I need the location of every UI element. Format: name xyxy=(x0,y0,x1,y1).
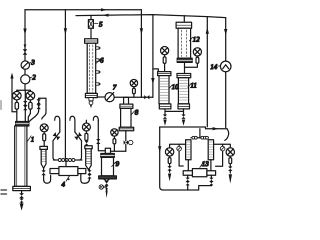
wire: electrolyzer section top line xyxy=(160,127,227,129)
swan neck 2 xyxy=(70,116,75,132)
swan neck 3 xyxy=(93,116,98,120)
svg-text:9: 9 xyxy=(116,160,120,168)
column 6 xyxy=(87,43,96,93)
wire: swan1 drop with valve xyxy=(53,132,61,160)
wire: manifold tee xyxy=(17,89,31,91)
svg-text:3: 3 xyxy=(30,59,35,67)
column 6 drain xyxy=(89,98,93,109)
rotameter pot C xyxy=(43,132,46,147)
column 1 bottom flange xyxy=(13,186,31,190)
wire: branch B drop xyxy=(28,100,30,122)
column 10 bottom flange xyxy=(159,104,171,109)
rotameter pot A xyxy=(15,102,18,109)
wire: main center line x=65.4 xyxy=(64,10,66,160)
heater 4 right nozzle xyxy=(78,169,86,174)
condenser 8 drain valve with handle xyxy=(124,131,133,152)
pump 2 xyxy=(21,75,30,84)
valve A (handwheel) xyxy=(12,90,21,100)
label 13 xyxy=(200,160,210,168)
column 1 top flange xyxy=(16,122,29,127)
label 6 xyxy=(96,57,104,65)
absorber 9 body xyxy=(102,157,114,176)
heater 4 left nozzle xyxy=(50,169,59,174)
wire: stub header to heater xyxy=(65,160,67,167)
feeder box 5 xyxy=(88,15,93,38)
wire: bridge between column bottoms xyxy=(165,109,184,112)
column 10 top flange xyxy=(158,72,171,76)
absorber 9 bottom flange xyxy=(99,176,117,179)
wire: cell left drain xyxy=(186,175,190,190)
label 9 xyxy=(112,160,120,168)
wire: branch to column 10 flange xyxy=(153,69,158,72)
wire: column 10 drain xyxy=(163,111,167,126)
small arrow above valve xyxy=(24,45,27,49)
pressure gauge D xyxy=(82,120,90,141)
wire: U-bend heater to burette 2 xyxy=(81,174,90,184)
wire: drop from line 1 to condensate line xyxy=(140,10,142,97)
wire: U-bend burette1 to heater 4 xyxy=(44,175,51,183)
label 4 xyxy=(62,176,70,189)
pressure gauge G xyxy=(161,47,169,72)
valve C handwheel near column 1 xyxy=(40,124,48,132)
arrow right on line 1 xyxy=(101,8,107,11)
column 1 xyxy=(15,126,27,186)
wire: side line top elbow and curl xyxy=(39,98,46,119)
burette 2 xyxy=(85,146,92,170)
circulation pump left xyxy=(177,144,183,166)
cell 13 right nozzle xyxy=(207,171,216,176)
label 12 xyxy=(189,36,200,44)
column 1 drain valves and arrow xyxy=(19,191,24,211)
arrow right on section top line xyxy=(213,127,219,130)
absorber 9 neck xyxy=(105,148,110,153)
header pipe above heater 4 xyxy=(54,159,83,162)
cell 13 left nozzle xyxy=(183,171,192,176)
wire: tube stubs to nozzles xyxy=(188,160,211,171)
pump 14 xyxy=(220,61,231,72)
wire: column 12 to column 11 xyxy=(184,62,186,73)
curl at right end of top line xyxy=(225,129,229,141)
wire: line2 drop via pump 14 xyxy=(224,18,227,128)
column 12 stub to line 2 xyxy=(183,16,185,22)
circulation pump right xyxy=(216,144,225,166)
column 12 body xyxy=(178,28,191,58)
cell dome bead row xyxy=(191,136,208,139)
arrow left on line 2 xyxy=(103,14,109,17)
wire: column 11 drain xyxy=(181,111,185,126)
valve on feed riser xyxy=(23,49,28,55)
electrolyzer right tube xyxy=(208,140,213,160)
svg-text:14: 14 xyxy=(210,63,218,71)
wire: swan2 drop with valve xyxy=(74,132,82,160)
label 2 xyxy=(30,74,36,82)
cell 13 body xyxy=(192,169,207,177)
label 8 xyxy=(131,108,139,116)
svg-text:13: 13 xyxy=(202,160,210,168)
label 10 xyxy=(169,83,179,91)
column 12 top flange xyxy=(176,22,192,28)
column 12 bottom flange xyxy=(177,58,192,62)
column 6 bottom flange xyxy=(85,93,97,97)
arrow down on feed riser xyxy=(23,29,26,35)
label 14 xyxy=(210,63,220,71)
valve under burette 1 xyxy=(41,168,45,179)
condenser 8 bottom flange xyxy=(119,127,134,131)
svg-text:11: 11 xyxy=(190,82,196,90)
arrow down on drop xyxy=(140,28,143,34)
wire: side line with double valve x=38.7 xyxy=(30,98,41,121)
wire: swan3 drop to absorber 9 xyxy=(96,121,105,151)
column 11 top flange xyxy=(177,74,191,78)
column 6 top flange xyxy=(85,39,98,44)
wire: condensate line y=97.2 xyxy=(97,96,153,98)
wire: cell right drain xyxy=(209,175,213,185)
wire: top supply line 1 xyxy=(25,9,141,11)
column 10 body xyxy=(159,76,169,104)
arrow down on main center line xyxy=(64,28,67,34)
label 5 xyxy=(94,21,103,29)
column 11 bottom flange xyxy=(178,104,190,109)
svg-text:7: 7 xyxy=(113,84,117,92)
pressure gauge J xyxy=(214,144,235,183)
pump 7 xyxy=(105,93,114,102)
pressure gauge H xyxy=(185,48,202,68)
wire: into absorber 9 neck xyxy=(111,150,126,152)
electrolyzer left tube xyxy=(186,140,191,160)
valve on condensate line xyxy=(144,95,149,99)
double valve under burette 2 xyxy=(87,170,91,179)
valve under gauge D xyxy=(85,141,89,146)
pressure gauge F above condenser 8 xyxy=(130,79,137,97)
wire: drop line2 to columns 10 and condenser line xyxy=(152,15,154,98)
wire: top return line 2 xyxy=(76,15,226,18)
svg-text:1: 1 xyxy=(31,136,35,144)
wire: branch A drop xyxy=(16,100,18,122)
condenser 8 top flange xyxy=(120,104,133,108)
heater 4 body xyxy=(59,167,78,176)
wire: center feed drop with double valve xyxy=(23,90,27,121)
valve B (handwheel) xyxy=(26,90,35,100)
wire: vent line with up arrow xyxy=(10,73,16,112)
condenser 8 neck xyxy=(124,97,129,104)
wire: stub top line to cell dome xyxy=(199,129,201,138)
absorber 9 drain xyxy=(99,179,109,198)
arrow down on x=152.9 xyxy=(151,78,154,84)
label 11 xyxy=(188,82,197,90)
pressure gauge I xyxy=(165,144,185,181)
wire: section left riser and bottom xyxy=(158,127,211,190)
swan neck 1 xyxy=(55,116,60,132)
svg-text:4: 4 xyxy=(62,181,66,189)
svg-text:8: 8 xyxy=(135,108,139,116)
svg-text:2: 2 xyxy=(32,74,36,82)
wire: left feed riser x=25 xyxy=(24,10,26,91)
rotameter pot B xyxy=(29,102,32,109)
column 6 side nozzles xyxy=(96,47,101,85)
svg-text:12: 12 xyxy=(193,36,201,44)
column 11 body xyxy=(178,78,188,104)
burette 1 xyxy=(40,146,48,168)
label 3 xyxy=(29,59,35,67)
svg-text:5: 5 xyxy=(99,21,103,29)
svg-text:6: 6 xyxy=(100,57,104,65)
condenser 8 body xyxy=(121,108,131,127)
rotameter 3 xyxy=(21,61,29,69)
absorber 9 top flange xyxy=(101,154,115,158)
pressure gauge E xyxy=(111,129,118,152)
wire: line2 drop x=207.3 xyxy=(206,17,209,127)
stray print marks bottom left xyxy=(1,190,7,194)
stray mark left edge xyxy=(0,101,2,110)
label 1 xyxy=(27,136,34,144)
